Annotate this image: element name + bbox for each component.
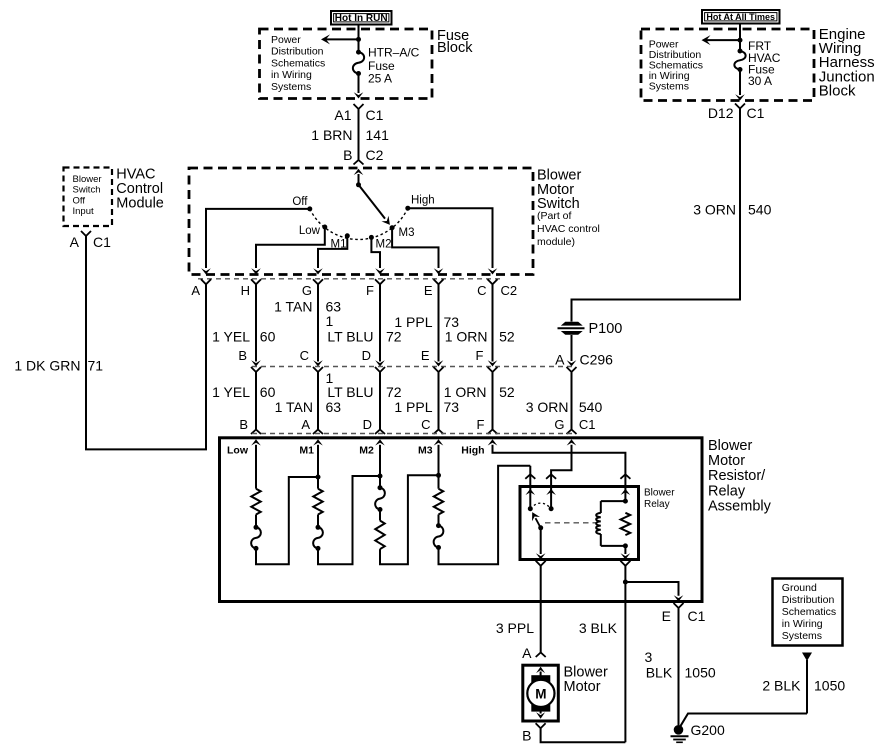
svg-text:Distribution: Distribution <box>782 594 835 606</box>
svg-text:52: 52 <box>499 384 515 400</box>
svg-text:F: F <box>366 283 374 298</box>
svg-text:Assembly: Assembly <box>708 499 772 515</box>
svg-text:3 PPL: 3 PPL <box>496 620 534 636</box>
svg-text:High: High <box>461 445 484 457</box>
svg-text:Off: Off <box>292 196 308 208</box>
svg-text:72: 72 <box>386 384 402 400</box>
svg-text:1 YEL: 1 YEL <box>212 384 250 400</box>
svg-text:Off: Off <box>73 195 86 206</box>
svg-text:60: 60 <box>260 328 276 344</box>
svg-text:1 ORN: 1 ORN <box>444 384 487 400</box>
svg-text:A1: A1 <box>334 107 351 123</box>
svg-text:1 TAN: 1 TAN <box>275 399 313 415</box>
svg-text:1 PPL: 1 PPL <box>394 399 432 415</box>
svg-text:C1: C1 <box>93 234 111 250</box>
svg-text:Switch: Switch <box>73 185 101 196</box>
svg-text:1 YEL: 1 YEL <box>212 328 250 344</box>
svg-text:Input: Input <box>73 206 94 217</box>
svg-text:71: 71 <box>88 358 104 374</box>
svg-text:module): module) <box>537 236 575 248</box>
svg-text:72: 72 <box>386 328 402 344</box>
svg-text:HTR–A/C: HTR–A/C <box>368 46 420 60</box>
svg-text:E: E <box>662 608 671 624</box>
svg-text:Hot In RUN: Hot In RUN <box>335 13 388 24</box>
svg-text:C1: C1 <box>747 105 765 121</box>
svg-text:Low: Low <box>299 225 321 237</box>
svg-text:Relay: Relay <box>708 483 746 499</box>
svg-text:540: 540 <box>579 399 603 415</box>
svg-text:A: A <box>301 417 310 432</box>
svg-text:G: G <box>554 417 564 432</box>
svg-text:M: M <box>535 686 546 701</box>
svg-text:BLK: BLK <box>646 665 673 681</box>
svg-text:1 TAN: 1 TAN <box>274 299 312 315</box>
svg-text:30 A: 30 A <box>748 74 772 88</box>
svg-text:Motor: Motor <box>564 679 601 695</box>
svg-text:B: B <box>343 147 352 163</box>
svg-text:G200: G200 <box>691 722 725 738</box>
svg-text:C: C <box>421 417 430 432</box>
svg-text:3: 3 <box>645 649 653 665</box>
svg-text:F: F <box>476 348 484 363</box>
svg-text:A: A <box>70 234 80 250</box>
svg-text:B: B <box>239 417 248 432</box>
svg-text:1 ORN: 1 ORN <box>445 328 488 344</box>
svg-text:M2: M2 <box>359 445 374 457</box>
svg-text:63: 63 <box>326 399 342 415</box>
svg-text:C1: C1 <box>366 107 384 123</box>
svg-text:1050: 1050 <box>814 678 845 694</box>
svg-text:Ground: Ground <box>782 582 817 594</box>
svg-text:3 ORN: 3 ORN <box>526 399 569 415</box>
svg-text:B: B <box>522 728 531 744</box>
svg-text:M1: M1 <box>299 445 314 457</box>
svg-text:C2: C2 <box>366 147 384 163</box>
svg-text:C1: C1 <box>688 608 706 624</box>
svg-text:LT BLU: LT BLU <box>327 328 373 344</box>
svg-text:3 BLK: 3 BLK <box>579 620 618 636</box>
svg-text:Control: Control <box>116 181 163 197</box>
svg-text:1 DK GRN: 1 DK GRN <box>14 358 80 374</box>
svg-text:73: 73 <box>444 399 460 415</box>
svg-text:D12: D12 <box>708 105 734 121</box>
svg-text:Blower: Blower <box>73 174 102 185</box>
svg-text:Distribution: Distribution <box>271 46 324 58</box>
svg-text:C1: C1 <box>579 417 596 432</box>
svg-text:52: 52 <box>499 328 515 344</box>
svg-text:M3: M3 <box>418 445 433 457</box>
svg-text:F: F <box>477 417 485 432</box>
svg-text:A: A <box>522 645 532 661</box>
svg-text:Block: Block <box>437 40 473 56</box>
svg-text:Block: Block <box>819 82 856 99</box>
svg-text:M3: M3 <box>399 227 415 239</box>
svg-text:Schematics: Schematics <box>271 57 325 69</box>
svg-text:in Wiring: in Wiring <box>782 618 823 630</box>
svg-text:C: C <box>477 283 486 298</box>
svg-text:Power: Power <box>271 34 301 46</box>
svg-text:C: C <box>300 348 309 363</box>
svg-text:P100: P100 <box>589 321 623 337</box>
svg-text:Low: Low <box>227 445 249 457</box>
svg-text:3 ORN: 3 ORN <box>693 202 736 218</box>
svg-text:Module: Module <box>116 196 164 212</box>
svg-text:Schematics: Schematics <box>782 606 836 618</box>
svg-text:A: A <box>555 352 565 368</box>
svg-text:2 BLK: 2 BLK <box>762 678 801 694</box>
svg-text:M2: M2 <box>376 239 392 251</box>
svg-text:E: E <box>424 283 433 298</box>
svg-text:H: H <box>241 283 250 298</box>
svg-text:HVAC control: HVAC control <box>537 223 600 235</box>
svg-text:in Wiring: in Wiring <box>271 69 312 81</box>
svg-text:60: 60 <box>260 384 276 400</box>
svg-text:Blower: Blower <box>644 488 675 499</box>
svg-text:Systems: Systems <box>649 80 689 92</box>
svg-text:Blower: Blower <box>708 438 752 454</box>
svg-text:141: 141 <box>366 127 390 143</box>
svg-text:B: B <box>238 348 247 363</box>
svg-text:A: A <box>191 283 200 298</box>
svg-text:Systems: Systems <box>271 81 311 93</box>
svg-text:LT BLU: LT BLU <box>327 384 373 400</box>
svg-text:1: 1 <box>326 313 334 329</box>
svg-text:D: D <box>363 417 372 432</box>
svg-text:540: 540 <box>748 202 772 218</box>
svg-text:C2: C2 <box>501 283 518 298</box>
svg-text:Relay: Relay <box>644 499 670 510</box>
svg-text:E: E <box>421 348 430 363</box>
svg-text:G: G <box>302 283 312 298</box>
svg-text:C296: C296 <box>580 352 614 368</box>
svg-text:Systems: Systems <box>782 630 822 642</box>
svg-text:1 BRN: 1 BRN <box>311 127 352 143</box>
svg-text:Motor: Motor <box>708 453 745 469</box>
svg-text:(Part of: (Part of <box>537 210 572 222</box>
svg-text:1050: 1050 <box>685 665 716 681</box>
svg-text:Hot At All Times: Hot At All Times <box>706 12 775 22</box>
svg-text:Resistor/: Resistor/ <box>708 468 766 484</box>
svg-text:25 A: 25 A <box>368 71 392 85</box>
svg-text:High: High <box>411 195 435 207</box>
svg-text:HVAC: HVAC <box>116 166 155 182</box>
svg-text:D: D <box>362 348 371 363</box>
